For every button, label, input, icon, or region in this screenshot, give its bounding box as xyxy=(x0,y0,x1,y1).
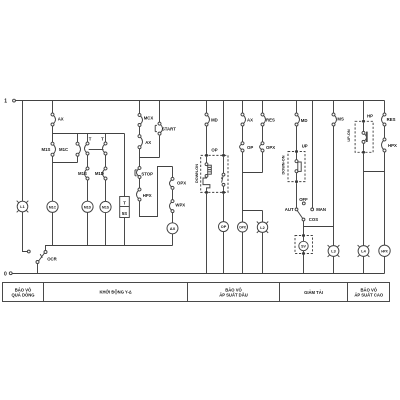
svg-text:RES: RES xyxy=(387,117,396,122)
wire timer rung xyxy=(124,134,126,246)
contact HPX xyxy=(137,188,142,201)
svg-text:MCX: MCX xyxy=(144,115,154,120)
contact M1S xyxy=(51,142,56,156)
contact T (timer) xyxy=(85,142,90,155)
svg-text:OP: OP xyxy=(247,145,253,150)
contact OPX xyxy=(260,142,264,152)
svg-text:OP: OP xyxy=(221,225,227,229)
contact UP switch xyxy=(295,153,301,180)
contact AX xyxy=(241,113,246,126)
svg-text:M1C: M1C xyxy=(59,147,68,152)
wire capacity rung xyxy=(296,101,298,209)
coil OPX xyxy=(238,222,248,232)
svg-text:0: 0 xyxy=(4,272,7,278)
svg-text:M1S: M1S xyxy=(102,206,110,210)
wire HP rung xyxy=(363,101,365,274)
contact M1S interlock xyxy=(85,167,90,180)
pressure switch HP dashed box xyxy=(355,121,373,152)
lamp L3 xyxy=(328,245,340,257)
contact M1D xyxy=(295,113,300,126)
contact WPX xyxy=(170,200,175,213)
svg-text:L3: L3 xyxy=(331,250,335,254)
lamp L4 xyxy=(358,245,370,257)
svg-text:AX: AX xyxy=(170,226,176,231)
wire M1S lamp rung xyxy=(333,101,335,274)
coil M1C xyxy=(47,201,58,212)
wire horizontal feed bus y133.5 xyxy=(53,133,125,135)
wire pressure section right branch xyxy=(223,101,225,274)
node junction dots UP box xyxy=(295,150,298,153)
wire MAN rung xyxy=(312,101,314,209)
coil HPX xyxy=(379,245,390,256)
wire lamp L1 rung xyxy=(23,101,28,252)
wire bottom rail xyxy=(12,273,384,275)
wire unload rung A xyxy=(242,101,244,274)
svg-text:M1D: M1D xyxy=(95,171,104,176)
solenoid valve SV dashed box xyxy=(295,236,313,254)
title block xyxy=(3,283,390,302)
pressure element (spring) xyxy=(203,157,211,191)
contact M1D interlock xyxy=(103,167,108,180)
svg-text:M1C: M1C xyxy=(49,205,57,209)
overload contact OCR xyxy=(36,251,58,274)
svg-text:STOP: STOP xyxy=(141,171,153,176)
wire pressure section left rung xyxy=(206,101,208,274)
wire START rung xyxy=(159,101,161,158)
contact MCX xyxy=(138,114,143,127)
wire unload rung B xyxy=(262,101,264,274)
wire start join xyxy=(140,157,160,159)
contact M1C xyxy=(77,134,79,163)
svg-text:SV: SV xyxy=(301,245,306,249)
svg-text:WPX: WPX xyxy=(175,203,185,208)
svg-text:OCR: OCR xyxy=(47,256,57,261)
coil M1D xyxy=(82,201,93,212)
wire selector output xyxy=(304,221,334,274)
selector switch COS xyxy=(285,197,326,222)
svg-text:AX: AX xyxy=(58,116,64,121)
svg-text:5S: 5S xyxy=(122,211,127,216)
wire RES HPX rung xyxy=(384,101,386,274)
wire MCX rung xyxy=(140,101,173,217)
contact HP switch xyxy=(362,123,368,151)
timer T 5S xyxy=(120,197,130,218)
relay coil AX xyxy=(167,223,178,234)
wire M1C rung xyxy=(52,101,54,246)
wire T rung 1 xyxy=(87,134,89,246)
svg-text:T: T xyxy=(123,201,126,206)
svg-text:OPX: OPX xyxy=(266,145,275,150)
svg-text:HPX: HPX xyxy=(381,249,388,253)
contact AX xyxy=(51,113,56,126)
coil SV xyxy=(299,241,308,250)
node junction dots HP box xyxy=(362,120,365,123)
contact M1D xyxy=(205,113,210,126)
svg-text:MAN: MAN xyxy=(316,207,326,212)
contact STOP xyxy=(137,167,142,179)
wire top rail xyxy=(15,100,384,102)
contact START pushbutton xyxy=(158,122,163,135)
svg-text:AUT: AUT xyxy=(285,207,294,212)
pressure switch OP dashed box xyxy=(201,155,228,192)
contact RES xyxy=(382,113,387,126)
svg-text:HPX: HPX xyxy=(143,193,152,198)
pressure switch UP dashed box xyxy=(288,152,305,182)
svg-text:UP-ON: UP-ON xyxy=(347,129,351,141)
wire rejoin xyxy=(53,162,78,164)
svg-text:T: T xyxy=(89,136,92,141)
svg-text:M1D: M1D xyxy=(84,205,92,209)
svg-text:M1S: M1S xyxy=(42,147,51,152)
svg-text:OP: OP xyxy=(211,147,217,152)
svg-text:START: START xyxy=(162,127,176,132)
contact T (timer) xyxy=(103,142,108,155)
svg-text:L2: L2 xyxy=(260,226,264,230)
svg-text:DOWN-ON: DOWN-ON xyxy=(195,164,199,183)
svg-text:MD: MD xyxy=(211,117,218,122)
svg-text:MD: MD xyxy=(301,118,308,123)
wire T rung 2 xyxy=(105,134,107,246)
contact OP xyxy=(240,142,244,152)
wire coil return bus xyxy=(46,246,173,251)
node L1 terminal xyxy=(27,250,30,253)
svg-text:RES: RES xyxy=(266,117,275,122)
contact M1S xyxy=(332,113,337,126)
wire join high pressure xyxy=(364,171,385,173)
contact HPX xyxy=(382,138,387,152)
svg-text:OFF: OFF xyxy=(299,197,308,202)
svg-text:HPX: HPX xyxy=(388,143,397,148)
svg-text:HP: HP xyxy=(367,114,373,119)
coil M1S xyxy=(100,201,111,212)
svg-text:UP: UP xyxy=(302,143,308,148)
svg-text:L1: L1 xyxy=(20,205,24,209)
wire join xyxy=(243,172,263,174)
svg-text:DOWN-ON: DOWN-ON xyxy=(281,155,285,174)
svg-text:ÁP SUẤT CAO: ÁP SUẤT CAO xyxy=(354,293,384,298)
wire lamp branch xyxy=(243,210,263,212)
svg-text:KHỞI ĐỘNG Y-∆: KHỞI ĐỘNG Y-∆ xyxy=(99,290,132,295)
mechanical link xyxy=(89,149,104,151)
svg-text:M1S: M1S xyxy=(78,171,87,176)
contact AX xyxy=(138,135,143,149)
svg-text:GIẢM TẢI: GIẢM TẢI xyxy=(304,290,323,295)
svg-text:AX: AX xyxy=(145,140,151,145)
contact RES xyxy=(261,113,266,126)
node junction dots SV box xyxy=(302,234,305,237)
svg-text:COS: COS xyxy=(309,217,318,222)
contact OPX xyxy=(170,177,175,189)
svg-text:T: T xyxy=(101,136,104,141)
svg-text:AX: AX xyxy=(247,118,253,123)
lamp L2 xyxy=(257,222,268,233)
svg-text:OPX: OPX xyxy=(177,181,186,186)
node junction dots OP box xyxy=(205,154,208,157)
svg-text:ÁP SUẤT DẦU: ÁP SUẤT DẦU xyxy=(219,293,248,298)
lamp L1 xyxy=(17,201,29,213)
svg-text:MS: MS xyxy=(337,117,344,122)
svg-text:OPX: OPX xyxy=(239,226,247,230)
contact OP switch blade xyxy=(221,173,225,186)
svg-text:QUÁ DÒNG: QUÁ DÒNG xyxy=(11,293,34,298)
svg-text:1: 1 xyxy=(4,99,7,105)
coil OP xyxy=(219,222,229,232)
wire AX coil rung xyxy=(172,167,174,246)
